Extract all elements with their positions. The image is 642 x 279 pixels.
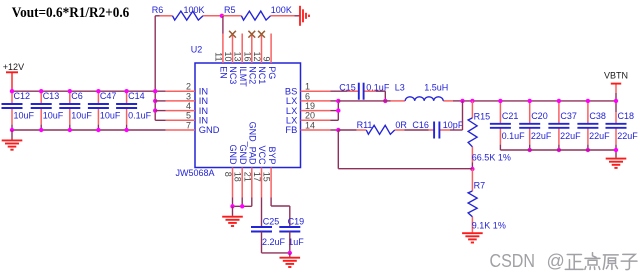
capacitor C13 value [43, 111, 64, 121]
capacitor C37 label [560, 111, 577, 121]
wire output rail [463, 100, 617, 102]
svg-text:L3: L3 [395, 82, 405, 92]
wire R6 left corner [155, 15, 159, 17]
svg-text:100K: 100K [271, 5, 292, 15]
svg-text:C14: C14 [128, 91, 145, 101]
resistor R7 value [472, 220, 506, 230]
U2 top pin 12 (NC1) [261, 34, 263, 64]
svg-text:4: 4 [186, 101, 191, 111]
node C20 bottom junction [528, 148, 532, 152]
wire LX19 stub [331, 110, 339, 112]
node C37 bottom junction [557, 148, 561, 152]
resistor R5 label [224, 5, 236, 15]
resistor R15 pins [471, 101, 473, 169]
capacitor C6 stubs [69, 91, 71, 130]
wire BYP to C19 [271, 198, 290, 228]
svg-text:R6: R6 [152, 5, 164, 15]
svg-text:10: 10 [223, 51, 233, 61]
resistor R6 pins [160, 15, 222, 17]
watermark hanzi 子 [621, 254, 637, 269]
capacitor C21 label [502, 111, 519, 121]
capacitor C15 label [339, 82, 356, 92]
pin number 5 [186, 111, 191, 121]
capacitor C15 value [366, 82, 390, 92]
svg-text:8: 8 [223, 172, 233, 177]
svg-text:22uF: 22uF [617, 131, 638, 141]
node pin8 gnd junction [230, 204, 234, 208]
pin number 9 [262, 56, 272, 61]
svg-text:@: @ [547, 251, 565, 271]
svg-text:0R: 0R [395, 120, 407, 130]
resistor R5 pins [222, 15, 295, 17]
svg-text:IN: IN [199, 96, 208, 106]
capacitor C47 plates [88, 104, 109, 108]
no-connect X pin 10 [229, 31, 236, 38]
svg-text:C12: C12 [14, 91, 31, 101]
svg-text:R7: R7 [474, 180, 486, 190]
svg-text:IN: IN [199, 106, 208, 116]
svg-text:C15: C15 [339, 82, 356, 92]
wire IN5 stub [155, 119, 165, 121]
pin number 17 [252, 172, 262, 182]
pin name IN pin4 [199, 106, 208, 116]
watermark hanzi 原 [603, 255, 618, 270]
pin number 20 [305, 111, 315, 121]
node C18/VBTN junction [614, 99, 618, 103]
wire R6-left vertical to IN pins [154, 16, 156, 121]
pin number 14 [305, 120, 315, 130]
svg-text:16: 16 [242, 51, 252, 61]
svg-text:LX: LX [286, 116, 297, 126]
capacitor C14 stubs [126, 91, 128, 130]
U2 top pin 9 (PG) [270, 34, 272, 64]
node C37 top junction [557, 99, 561, 103]
pin number 15 [262, 172, 272, 182]
capacitor C16 value [443, 120, 464, 130]
svg-text:CSDN: CSDN [490, 251, 536, 271]
svg-text:7: 7 [186, 120, 191, 130]
node R15 junction [470, 99, 474, 103]
svg-text:+12V: +12V [3, 62, 24, 72]
node C25/C19 gnd junction [288, 251, 292, 255]
capacitor C38 value [589, 131, 610, 141]
watermark at-sign [547, 251, 565, 271]
pin number 19 [305, 101, 315, 111]
capacitor C21 plates [490, 124, 511, 128]
svg-text:FB: FB [285, 125, 297, 135]
node IN4 junction [153, 108, 157, 112]
svg-text:13: 13 [233, 51, 243, 61]
U2 left pin 4 (IN) [166, 110, 195, 112]
capacitor C6 value [71, 111, 92, 121]
svg-text:1: 1 [305, 82, 310, 92]
node C47 top rail junction [96, 89, 100, 93]
wire LX to L3 [338, 100, 385, 102]
wire R11 to C16 [404, 129, 429, 131]
svg-text:C20: C20 [531, 111, 548, 121]
node FB divider junction [470, 167, 474, 171]
svg-text:9.1K 1%: 9.1K 1% [472, 220, 506, 230]
pin name LX pin20 [286, 116, 297, 126]
capacitor C16 label [412, 120, 429, 130]
capacitor C20 stubs [529, 101, 531, 150]
U2 top pin 11 (EN) [222, 34, 224, 64]
svg-text:15: 15 [262, 172, 272, 182]
U2 designator [191, 45, 203, 55]
svg-text:GND: GND [228, 145, 238, 166]
capacitor C16 plates [434, 122, 439, 139]
U2 left pin 3 (IN) [166, 100, 195, 102]
U2 right pin 6 (LX) [301, 100, 331, 102]
capacitor C15 pins [347, 90, 375, 92]
pin name GND_PAD pin21 [248, 122, 258, 165]
capacitor C14 label [128, 91, 145, 101]
svg-text:0.1uF: 0.1uF [128, 111, 152, 121]
svg-text:1uF: 1uF [288, 237, 304, 247]
ground R7 [462, 233, 483, 242]
pin name VCC pin17 [257, 145, 267, 165]
node C47 bottom rail junction [96, 128, 100, 132]
node C21 top junction [498, 99, 502, 103]
U2 bottom pin 8 (GND) [232, 168, 234, 198]
svg-text:U2: U2 [191, 45, 203, 55]
capacitor C37 plates [548, 124, 569, 128]
svg-text:100K: 100K [184, 5, 205, 15]
node IN3 junction [153, 99, 157, 103]
svg-text:NC3: NC3 [228, 66, 238, 84]
capacitor C20 label [531, 111, 548, 121]
svg-text:IN: IN [199, 86, 208, 96]
svg-text:20: 20 [305, 111, 315, 121]
wire IN4 stub [155, 110, 165, 112]
svg-text:14: 14 [305, 120, 315, 130]
svg-text:JW5068A: JW5068A [176, 168, 215, 178]
svg-text:17: 17 [252, 172, 262, 182]
capacitor C38 plates [577, 124, 598, 128]
node C6 top rail junction [68, 89, 72, 93]
pin name FB pin14 [285, 125, 297, 135]
U2 right pin 1 (BS) [301, 90, 331, 92]
node +12V rail / vertical junction [153, 89, 157, 93]
pin number 11 [213, 52, 223, 61]
capacitor C15 plates [359, 83, 364, 100]
U2 bottom pin 17 (VCC) [261, 168, 263, 198]
svg-text:LX: LX [286, 106, 297, 116]
watermark hanzi 正 [565, 255, 583, 270]
power +12V label [3, 62, 24, 72]
svg-text:5: 5 [186, 111, 191, 121]
svg-text:22uF: 22uF [560, 131, 581, 141]
node C13 bottom rail junction [39, 128, 43, 132]
resistor R6 body [173, 11, 204, 20]
capacitor C25 label [263, 216, 280, 226]
svg-text:6: 6 [305, 91, 310, 101]
svg-text:Vout=0.6*R1/R2+0.6: Vout=0.6*R1/R2+0.6 [12, 5, 130, 21]
capacitor C19 label [288, 216, 305, 226]
capacitor C38 label [589, 111, 606, 121]
node C14 top rail junction [124, 89, 128, 93]
wire VCC to C25 [261, 198, 263, 228]
wire FB stub [331, 129, 339, 131]
capacitor C14 value [128, 111, 152, 121]
wire LX tie vertical [337, 101, 339, 120]
node C13 top rail junction [39, 89, 43, 93]
node LX19 junction [336, 108, 340, 112]
pin name NC3 [228, 66, 238, 84]
svg-text:2: 2 [186, 82, 191, 92]
svg-text:11: 11 [213, 52, 223, 61]
pin number 18 [233, 172, 243, 182]
svg-text:C47: C47 [100, 91, 117, 101]
capacitor C37 stubs [558, 101, 560, 150]
node C16 riser junction [460, 99, 464, 103]
svg-text:R5: R5 [224, 5, 236, 15]
wire C15 to LX node [376, 91, 386, 101]
resistor R7 body [468, 191, 477, 217]
resistor R15 value [472, 153, 511, 163]
pin name BS pin1 [285, 86, 297, 96]
svg-text:ILMT: ILMT [238, 66, 248, 87]
svg-text:R11: R11 [357, 120, 373, 130]
pin name IN pin2 [199, 86, 208, 96]
wire C16 riser to output [450, 101, 463, 130]
node BS/LX junction [383, 99, 387, 103]
svg-text:2.2uF: 2.2uF [262, 237, 286, 247]
wire output cap gnd rail [500, 149, 616, 151]
watermark CSDN text [490, 251, 536, 271]
node C38 top junction [586, 99, 590, 103]
title formula Vout [12, 5, 130, 21]
wire IN3 stub [155, 100, 165, 102]
wire pin18 drop [241, 198, 243, 207]
pin name NC2 [248, 66, 258, 84]
pin name GND pin18 [238, 145, 248, 166]
capacitor C14 plates [116, 104, 137, 108]
svg-text:18: 18 [233, 172, 243, 182]
capacitor C12 stubs [11, 91, 13, 130]
U2 right pin 14 (FB) [301, 129, 331, 131]
capacitor C47 label [100, 91, 117, 101]
wire pin21 drop [251, 198, 253, 207]
pin number 16 [242, 51, 252, 61]
ground U2 pins [222, 206, 243, 226]
svg-text:19: 19 [305, 101, 315, 111]
capacitor C19 value [288, 237, 304, 247]
wire LX6 stub [331, 100, 339, 102]
pin name GND pin8 [228, 145, 238, 166]
wire gnd tie [233, 205, 252, 207]
resistor R5 body [241, 11, 270, 20]
capacitor C47 value [100, 111, 121, 121]
capacitor C16 pins [429, 129, 450, 131]
node EN divider junction [220, 14, 224, 18]
svg-text:3: 3 [186, 91, 191, 101]
svg-text:10uF: 10uF [71, 111, 92, 121]
svg-text:PG: PG [267, 66, 277, 79]
ground input rail [2, 130, 23, 150]
pin number 4 [186, 101, 191, 111]
capacitor C12 plates [2, 104, 23, 108]
U2 left pin 2 (IN) [166, 90, 195, 92]
node FB junction [336, 128, 340, 132]
svg-text:10uF: 10uF [14, 111, 35, 121]
no-connect X pin 12 [258, 31, 265, 38]
resistor R7 pins [471, 169, 473, 232]
node C14 bottom rail junction [124, 128, 128, 132]
resistor R7 label [474, 180, 486, 190]
inductor L3 value [424, 82, 448, 92]
node C6 bottom rail junction [68, 128, 72, 132]
U2 top pin 16 (NC2) [251, 34, 253, 64]
capacitor C18 stubs [615, 101, 617, 150]
wire VBTN riser [615, 84, 617, 101]
svg-text:10uF: 10uF [100, 111, 121, 121]
svg-text:VCC: VCC [257, 145, 267, 165]
svg-text:IN: IN [199, 116, 208, 126]
wire FB to R11 [338, 129, 356, 131]
wire input gnd bottom rail [12, 129, 166, 131]
resistor R6 label [152, 5, 164, 15]
svg-text:EN: EN [219, 66, 229, 79]
capacitor C13 stubs [40, 91, 42, 130]
pin name NC1 [257, 66, 267, 84]
capacitor C25 value [262, 237, 286, 247]
svg-text:22uF: 22uF [531, 131, 552, 141]
pin number 12 [252, 51, 262, 61]
resistor R5 value 100K [271, 5, 292, 15]
svg-text:10pF: 10pF [443, 120, 464, 130]
pin name LX pin19 [286, 106, 297, 116]
pin number 6 [305, 91, 310, 101]
resistor R11 value 0R [395, 120, 407, 130]
svg-text:R15: R15 [474, 111, 491, 121]
svg-text:C19: C19 [288, 216, 305, 226]
svg-text:21: 21 [242, 172, 252, 182]
svg-text:C6: C6 [71, 91, 83, 101]
wire pin8 drop [232, 198, 234, 207]
wire FB down branch [338, 130, 472, 169]
capacitor C38 stubs [587, 101, 589, 150]
capacitor C13 plates [31, 104, 52, 108]
U2 top pin 10 (NC3) [232, 34, 234, 64]
svg-text:BS: BS [285, 86, 297, 96]
inductor L3 pins [385, 100, 462, 102]
svg-text:C13: C13 [43, 91, 60, 101]
resistor R15 label [474, 111, 491, 121]
svg-text:C18: C18 [618, 111, 635, 121]
U2 top pin 13 (ILMT) [241, 34, 243, 64]
node C38 bottom junction [586, 148, 590, 152]
wire EN net vertical [222, 16, 224, 34]
resistor R11 label [357, 120, 373, 130]
resistor R15 body [468, 118, 477, 147]
node LX6 junction [336, 99, 340, 103]
pin name GND pin7 [199, 125, 220, 135]
op-amp U2 JW5068A body [195, 63, 301, 168]
U2 right pin 20 (LX) [301, 119, 331, 121]
svg-text:C37: C37 [560, 111, 577, 121]
power +12V symbol [6, 72, 18, 91]
svg-text:9: 9 [262, 56, 272, 61]
U2 left pin 7 (GND) [166, 129, 195, 131]
svg-text:0.1uF: 0.1uF [502, 131, 526, 141]
capacitor C47 stubs [97, 91, 99, 130]
resistor R11 body [366, 125, 394, 134]
wire +12V top rail [12, 90, 166, 92]
svg-text:BYP: BYP [267, 146, 277, 164]
U2 part number JW5068A [176, 168, 215, 178]
wire C19 bottom [289, 232, 291, 253]
capacitor C19 plates [279, 227, 300, 232]
ground output caps [606, 150, 627, 168]
node C12 top junction [10, 89, 14, 93]
svg-text:C16: C16 [412, 120, 429, 130]
capacitor C12 value [14, 111, 35, 121]
capacitor C21 value [502, 131, 526, 141]
pin number 7 [186, 120, 191, 130]
pin number 2 [186, 82, 191, 92]
svg-text:C38: C38 [589, 111, 606, 121]
pin number 13 [233, 51, 243, 61]
capacitor C21 stubs [499, 101, 501, 150]
ground R5 (rotated) [300, 6, 309, 26]
pin number 8 [223, 172, 233, 177]
svg-text:GND_PAD: GND_PAD [248, 122, 258, 165]
svg-text:C21: C21 [502, 111, 519, 121]
pin number 3 [186, 91, 191, 101]
wire C25 bottom [262, 232, 290, 253]
wire R5 to ground [295, 15, 300, 17]
svg-text:10uF: 10uF [43, 111, 64, 121]
capacitor C20 plates [519, 124, 540, 128]
pin name IN pin3 [199, 96, 208, 106]
svg-text:66.5K 1%: 66.5K 1% [472, 153, 511, 163]
U2 left pin 5 (IN) [166, 119, 195, 121]
svg-text:22uF: 22uF [589, 131, 610, 141]
capacitor C12 label [14, 91, 31, 101]
pin number 10 [223, 51, 233, 61]
svg-text:C25: C25 [263, 216, 280, 226]
capacitor C20 value [531, 131, 552, 141]
svg-text:12: 12 [252, 51, 262, 61]
ground C25/C19 [280, 253, 301, 267]
U2 right pin 19 (LX) [301, 110, 331, 112]
pin name PG [267, 66, 277, 79]
node C12 bottom junction [10, 128, 14, 132]
wire BS to C15 [331, 90, 348, 92]
node C18 bottom junction [614, 148, 618, 152]
svg-text:GND: GND [238, 145, 248, 166]
svg-text:1.5uH: 1.5uH [424, 82, 448, 92]
pin name BYP pin15 [267, 146, 277, 164]
U2 bottom pin 15 (BYP) [270, 168, 272, 198]
capacitor C25 plates [251, 227, 272, 232]
capacitor C18 plates [606, 124, 627, 128]
U2 bottom pin 18 (GND) [241, 168, 243, 198]
pin name IN pin5 [199, 116, 208, 126]
power VBTN label [604, 70, 628, 80]
node C20 top junction [528, 99, 532, 103]
capacitor C37 value [560, 131, 581, 141]
inductor L3 body [405, 97, 443, 101]
watermark hanzi 点 [585, 253, 600, 270]
power VBTN symbol [611, 83, 621, 85]
U2 bottom pin 21 (GND_PAD) [251, 168, 253, 198]
inductor L3 label [395, 82, 405, 92]
pin name EN [219, 66, 229, 79]
capacitor C18 value [617, 131, 638, 141]
svg-text:LX: LX [286, 96, 297, 106]
